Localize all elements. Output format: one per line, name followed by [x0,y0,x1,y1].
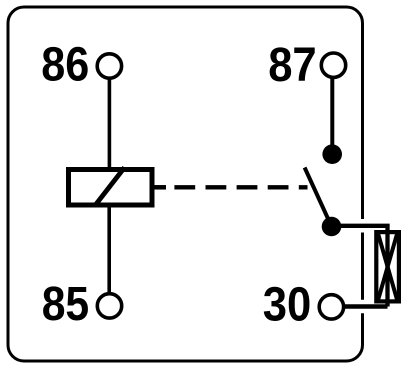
svg-text:85: 85 [42,277,89,331]
svg-text:87: 87 [268,38,317,92]
contact dot 87 side [322,144,342,164]
wire common-contact to load box (top) [332,226,388,307]
terminal circle 30 [319,295,343,319]
terminal circle 85 [97,294,121,318]
contact dot common [322,217,342,237]
coil diagonal [95,168,125,206]
wire coil-to-85 [107,205,111,293]
load box X mark [378,234,397,300]
wire 87-to-contact [330,79,334,154]
wire 87b-to-load (white halo over case edge) [348,219,378,233]
switch blade [305,168,330,224]
coil K1 body [69,170,153,206]
wire 30 to load box (bottom) [344,304,388,309]
wire 30-to-load (white halo over case edge) [348,300,378,314]
mechanical linkage (dashed) [174,185,307,189]
load box F1 [376,232,399,301]
wire 86-to-coil [108,79,112,169]
terminal circle 86 [97,54,121,78]
terminal circle 87 [321,53,345,77]
coil right stub [154,185,166,190]
svg-text:86: 86 [41,38,89,92]
svg-text:30: 30 [263,278,312,332]
